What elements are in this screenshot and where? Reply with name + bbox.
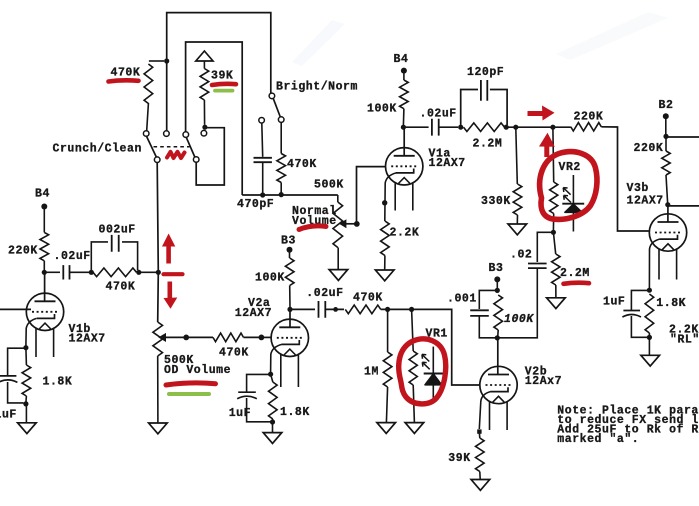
VR2 arrows — [563, 188, 571, 203]
svg-text:100K: 100K — [367, 103, 397, 116]
supply terminal B4 (V1b) — [41, 204, 47, 233]
svg-text:1uF: 1uF — [229, 407, 251, 420]
potentiometer 500K OD volume — [153, 322, 163, 423]
wire coupling to OD pot line — [139, 271, 157, 273]
svg-text:12AX7: 12AX7 — [235, 307, 272, 320]
svg-text:1M: 1M — [364, 366, 379, 379]
switch S2 blade — [273, 99, 280, 117]
svg-text:470pF: 470pF — [237, 198, 274, 211]
annotation red underline 2.2M — [564, 283, 590, 284]
node junction 1M — [385, 307, 390, 312]
label 1M — [364, 366, 379, 379]
node junction V1b cathode bottom — [23, 401, 28, 406]
capacitor .02uF (V1b out) — [63, 265, 89, 279]
svg-text:220K: 220K — [8, 244, 38, 257]
triode V1b — [26, 274, 63, 357]
label 220K (series) — [574, 111, 604, 124]
label 1.8K (V2a) — [280, 406, 310, 419]
node junction VR1 — [409, 307, 414, 312]
label B3 (V2a) — [281, 234, 296, 247]
resistor 39K (V2b cathode) — [476, 433, 485, 479]
svg-text:470K: 470K — [219, 346, 249, 359]
VR1 arrows — [422, 354, 430, 369]
triode V2a — [271, 311, 308, 387]
label V3b — [627, 182, 649, 195]
resistor 1M — [383, 309, 392, 422]
capacitor 002uF loop — [91, 235, 137, 272]
supply terminal B3 (V2b) — [494, 276, 500, 289]
label B2 — [659, 99, 674, 112]
wire S2 left throw to 470pF — [261, 123, 264, 157]
label 1uF (V1b) — [0, 408, 17, 421]
node junction VR2 tap — [550, 125, 555, 130]
label 470pF — [237, 198, 274, 211]
annotation red underline 39K — [212, 84, 236, 85]
capacitor 1uF (V1b bypass) — [0, 348, 26, 403]
svg-text:500K: 500K — [314, 178, 344, 191]
label 500K (normal volume) — [314, 178, 344, 191]
annotation red arrow up (to VR2) — [539, 133, 555, 157]
resistor VR1 shunt leg — [409, 309, 417, 422]
annotation red dash (OD) — [164, 272, 183, 276]
label 12AX7 (V2a) — [235, 307, 272, 320]
svg-text:1.8K: 1.8K — [280, 406, 310, 419]
wire S2 right throw to 470K — [280, 122, 282, 153]
node junction V2a grid — [259, 335, 265, 341]
supply terminal B4 (V1a) — [401, 68, 407, 80]
wire inner loop — [186, 42, 243, 195]
label 12Ax7 (V2b) — [525, 375, 562, 388]
resistor 100K (V2b plate) — [494, 295, 503, 336]
svg-text:12AX7: 12AX7 — [69, 332, 106, 345]
label 2.2K (V1a) — [390, 227, 420, 240]
label 330K — [481, 195, 511, 208]
capacitor .02uF (V1a out) — [432, 119, 458, 136]
resistor 1.8K (V2a cathode) — [269, 374, 278, 422]
wire coupling junctions — [506, 126, 571, 128]
svg-text:V3b: V3b — [627, 182, 649, 195]
svg-text:2.2M: 2.2M — [560, 267, 590, 280]
node junction V2a cathode — [268, 372, 273, 377]
switch terminal pin 2 — [164, 131, 170, 137]
wire V2a plate to cap — [290, 308, 315, 310]
resistor VR2 shunt leg — [550, 128, 558, 231]
node junction 002uF left — [89, 270, 94, 275]
node junction OD wiper — [183, 335, 189, 341]
ground (2.2M) — [547, 298, 566, 309]
note line 2 — [557, 414, 699, 427]
node junction V2a cathode bottom — [270, 419, 275, 424]
svg-text:12AX7: 12AX7 — [429, 157, 466, 170]
wire V1a plate to .02uF — [403, 126, 428, 128]
node junction V1b plate — [42, 270, 47, 275]
annotation red arrow right (to VR2) — [528, 106, 555, 121]
node junction OD line — [156, 270, 161, 275]
annotation red swoosh normal volume — [299, 226, 326, 230]
svg-text:VR2: VR2 — [559, 161, 581, 174]
label .02uF (V1b out) — [54, 250, 91, 263]
label .02uF (V2a out) — [306, 287, 343, 300]
node junction V2b plate — [495, 335, 500, 340]
wiper arrow normal volume — [340, 220, 357, 227]
label 12AX7 (V1a) — [429, 157, 466, 170]
resistor 2.2M (series) — [464, 123, 505, 132]
resistor 100K (V2a plate) — [285, 258, 294, 308]
svg-text:220K: 220K — [574, 111, 604, 124]
resistor 470K (V2a out) — [345, 305, 381, 314]
svg-text:39K: 39K — [448, 452, 470, 465]
label V1b — [69, 323, 91, 336]
resistor 2.2K (V1a cathode) — [381, 221, 390, 270]
label V1a — [429, 147, 451, 160]
capacitor 1uF (V3b bypass) — [622, 290, 649, 337]
switch terminal pin 6 (pole b) — [193, 157, 199, 163]
label VR2 — [559, 161, 581, 174]
label Crunch/Clean — [53, 142, 142, 155]
note line 1 — [557, 404, 699, 417]
label 220K (V3b plate) — [634, 142, 664, 155]
wire V2a cathode ground — [272, 422, 274, 432]
svg-text:B3: B3 — [281, 234, 296, 247]
label V2b — [525, 366, 547, 379]
label Normal — [292, 205, 337, 218]
capacitor 120pF bypass loop — [461, 80, 507, 127]
scan artifact streak 1 — [292, 20, 345, 66]
svg-text:1.8K: 1.8K — [656, 297, 686, 310]
node junction V3b cathode — [647, 288, 652, 293]
resistor 220K (series to V3b) — [571, 123, 649, 231]
node junction 470pF bus — [260, 192, 265, 197]
label .001 — [447, 293, 477, 306]
ground (V3b cathode) — [641, 355, 660, 366]
label 2.2K RL — [669, 324, 699, 337]
node junction V2a plate — [287, 307, 292, 312]
wire switch pole to OD pot — [157, 163, 158, 323]
svg-text:120pF: 120pF — [467, 66, 504, 79]
annotation red circle VR1 — [399, 339, 446, 404]
wire 39K junction to switch lower-right — [196, 128, 224, 185]
wire V1b plate to cap — [44, 271, 60, 273]
label 12AX7 (V3b) — [627, 194, 664, 207]
label .02uF (V1a out) — [420, 107, 457, 120]
switch terminal pin 3 — [183, 132, 189, 138]
switch S1 gang dashed link — [154, 146, 190, 148]
label 220K (V1b) — [8, 244, 38, 257]
label B4 (V1b) — [35, 187, 50, 200]
label 500K (OD) — [164, 354, 194, 367]
label 2.2M (series) — [473, 138, 503, 151]
label 1.8K (V1b) — [43, 376, 73, 389]
label Volume — [292, 215, 337, 228]
wire V1b grid — [0, 308, 31, 310]
wire V3b cathode to ground — [648, 337, 650, 355]
capacitor .02uF (V2a out) — [319, 301, 345, 318]
label 002uF — [99, 223, 136, 236]
resistor 470K (bright) — [277, 154, 286, 195]
resistor 220K (V3b plate) — [662, 136, 670, 202]
scan artifact streak 2 — [556, 12, 668, 60]
resistor 470K (V1b coupling) — [93, 268, 137, 277]
switch S2 terminal top — [269, 93, 275, 99]
resistor 220K (V1b plate) — [40, 232, 49, 270]
ground (330K) — [508, 224, 527, 235]
label B3 (V2b) — [489, 262, 504, 275]
svg-text:2.2M: 2.2M — [473, 138, 503, 151]
node junction V1b cathode — [23, 345, 28, 350]
ground (normal volume pot) — [329, 270, 348, 281]
svg-text:1.8K: 1.8K — [43, 376, 73, 389]
wiper arrow OD volume — [159, 334, 184, 341]
diode VR1 (LED clipper) — [424, 347, 443, 400]
svg-text:B4: B4 — [35, 187, 50, 200]
label 1uF (V2a) — [229, 407, 251, 420]
resistor 2.2M (shunt) — [552, 232, 560, 297]
node junction coupling right — [504, 125, 509, 130]
node junction 39K bottom — [202, 125, 207, 130]
wire wiper junction up to V1a grid — [357, 167, 386, 224]
annotation green underline 39K — [215, 89, 233, 93]
resistor 1.8K (V1b cathode) — [22, 348, 31, 403]
annotation red arrow up (OD) — [162, 234, 175, 264]
svg-text:.02uF: .02uF — [54, 250, 91, 263]
switch S2 terminal throw right — [278, 117, 284, 123]
annotation red line OD volume — [166, 383, 216, 385]
wire V1b cathode — [26, 318, 37, 346]
svg-text:470K: 470K — [287, 158, 317, 171]
wire V1b cathode ground — [25, 404, 27, 423]
node junction wiper to V1a grid — [354, 221, 360, 227]
svg-text:470K: 470K — [111, 67, 141, 80]
wire V3b cathode — [649, 239, 660, 292]
ground (V1a cathode) — [375, 270, 394, 281]
svg-text:B2: B2 — [659, 99, 674, 112]
node V2b cathode mark — [477, 429, 481, 433]
switch S2 terminal throw left — [259, 118, 265, 124]
node small junction after cap — [333, 307, 338, 312]
label 120pF — [467, 66, 504, 79]
svg-text:220K: 220K — [634, 142, 664, 155]
svg-text:2.2K: 2.2K — [390, 227, 420, 240]
supply terminal B3 (V2a) — [287, 247, 293, 258]
node V1a cathode dot — [382, 200, 387, 205]
node junction 002uF right — [136, 270, 141, 275]
resistor 470K (top-left) — [144, 61, 164, 131]
label 470K (top-left) — [111, 67, 141, 80]
annotation red circle VR2 — [540, 152, 597, 220]
potentiometer 500K normal volume — [333, 195, 343, 269]
switch terminal pin 1 — [143, 131, 149, 137]
svg-text:1uF: 1uF — [0, 408, 17, 421]
label 470K (V2a out) — [353, 291, 383, 304]
triode V1a — [386, 129, 423, 211]
label 2.2M (shunt) — [560, 267, 590, 280]
supply terminal B2 — [663, 113, 669, 134]
node junction V1a plate — [401, 125, 406, 130]
svg-text:.02uF: .02uF — [306, 287, 343, 300]
triode V3b — [649, 206, 686, 280]
node junction V3b cathode bottom — [647, 335, 652, 340]
wire V1a cathode — [385, 173, 396, 221]
switch S1 blade a — [147, 136, 157, 157]
label 1.8K (V3b) — [656, 297, 686, 310]
label 12AX7 (V1b) — [69, 332, 106, 345]
label 1uF (V3b) — [603, 296, 625, 309]
switch terminal pin 5 (pole a) — [154, 157, 160, 163]
svg-text:Crunch/Clean: Crunch/Clean — [53, 142, 142, 155]
wire VR2 junction to .02 cap — [537, 232, 553, 262]
node junction B3-.001 — [495, 288, 500, 293]
capacitor .02 (fx) — [499, 264, 547, 338]
wire B2 junction right — [666, 136, 699, 138]
node junction B2 — [663, 134, 668, 139]
resistor 100K (V1a plate) — [400, 80, 409, 125]
wire tone bus — [242, 194, 338, 196]
label 39K — [211, 70, 233, 83]
label VR1 — [426, 328, 448, 341]
node junction coupling left — [458, 125, 463, 130]
node junction V3b plate — [665, 202, 670, 207]
svg-text:100K: 100K — [255, 271, 285, 284]
annotation green line OD volume — [169, 392, 209, 396]
svg-text:B3: B3 — [489, 262, 504, 275]
node junction 330K tap — [513, 125, 518, 130]
label B4 (V1a) — [394, 53, 409, 66]
svg-text:39K: 39K — [211, 70, 233, 83]
capacitor .001 loop — [470, 290, 497, 337]
svg-text:OD Volume: OD Volume — [164, 364, 231, 377]
ground (1M) — [377, 423, 396, 434]
label V2a — [248, 297, 270, 310]
svg-text:470K: 470K — [353, 291, 383, 304]
label 100K (V2a) — [255, 271, 285, 284]
svg-text:12Ax7: 12Ax7 — [525, 375, 562, 388]
wire V2b cathode — [479, 392, 490, 429]
svg-text:470K: 470K — [106, 281, 136, 294]
svg-text:.001: .001 — [447, 293, 477, 306]
annotation red arrow down (OD) — [164, 282, 178, 309]
switch terminal pin 4 — [201, 130, 207, 136]
wire V3b plate right — [668, 205, 699, 207]
annotation red scribble on switch — [167, 152, 185, 158]
label Bright/Norm — [276, 80, 358, 93]
wire V2a grid stub — [261, 336, 271, 338]
svg-text:Bright/Norm: Bright/Norm — [276, 80, 358, 93]
ground (V2a cathode) — [263, 433, 282, 444]
svg-text:"RL": "RL" — [670, 333, 699, 346]
svg-text:330K: 330K — [481, 195, 511, 208]
capacitor 1uF (V2a bypass) — [237, 374, 270, 421]
wire mix bus — [381, 309, 480, 385]
resistor 330K — [513, 128, 522, 224]
capacitor 470pF — [254, 158, 272, 194]
ground (V1b cathode) — [18, 423, 37, 434]
label OD Volume — [164, 364, 231, 377]
switch S1 blade b — [186, 137, 195, 157]
ground (VR1) — [405, 423, 424, 434]
wire V2a cathode — [271, 344, 282, 372]
ground (39K) — [471, 480, 490, 491]
svg-text:002uF: 002uF — [99, 223, 136, 236]
supply arrow symbol (39K top) — [196, 51, 213, 69]
svg-text:B4: B4 — [394, 53, 409, 66]
label RL quoted — [670, 333, 699, 346]
resistor 470K (V2a grid) — [186, 333, 259, 342]
triode V2b — [480, 339, 517, 430]
note line 4 — [557, 433, 639, 446]
resistor 39K — [200, 69, 209, 125]
label 100K italic (V2b) — [504, 313, 534, 326]
node junction 470K bus — [279, 192, 284, 197]
label 470K (V1b coupling) — [106, 281, 136, 294]
wire top outer loop — [167, 13, 271, 131]
node junction VR2 bottom — [551, 230, 556, 235]
label 100K (V1a) — [367, 103, 397, 116]
svg-text:1uF: 1uF — [603, 296, 625, 309]
label 39K (V2b) — [448, 452, 470, 465]
svg-text:marked "a".: marked "a". — [557, 433, 639, 446]
svg-text:.02: .02 — [510, 248, 532, 261]
resistor 1.8K (V3b cathode) — [645, 294, 654, 337]
svg-text:100K: 100K — [504, 313, 534, 326]
ground (OD pot) — [149, 423, 168, 434]
svg-text:.02uF: .02uF — [420, 107, 457, 120]
note line 3 — [557, 423, 699, 436]
label 470K (bright) — [287, 158, 317, 171]
svg-text:12AX7: 12AX7 — [627, 194, 664, 207]
node junction 470K top — [164, 58, 169, 63]
label .02 — [510, 248, 532, 261]
label 470K (V2a grid) — [219, 346, 249, 359]
annotation red underline 470K — [109, 80, 139, 81]
diode VR2 (LED clipper) — [562, 175, 584, 232]
